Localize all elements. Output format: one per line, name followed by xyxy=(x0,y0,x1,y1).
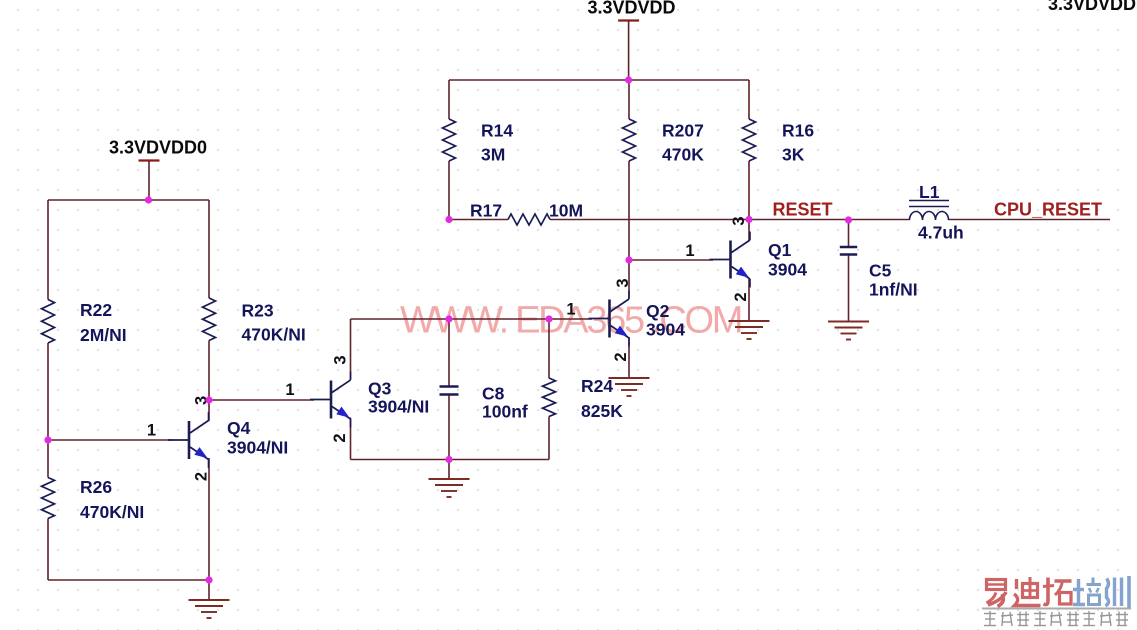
junction reset rail / C5 xyxy=(845,216,852,223)
svg-text:R207: R207 xyxy=(662,121,704,141)
svg-text:3K: 3K xyxy=(782,145,805,165)
svg-text:3904/NI: 3904/NI xyxy=(368,397,429,417)
wire Q3 collector riser xyxy=(350,319,352,379)
logo text 易迪拓 (red CJK glyph approximations) xyxy=(986,577,1072,607)
svg-text:10M: 10M xyxy=(549,201,583,221)
transistor Q2 (NPN 3904) xyxy=(589,291,630,347)
svg-text:C5: C5 xyxy=(869,261,892,281)
wire Q2 emitter drop xyxy=(628,337,630,378)
wire R207 leg upper xyxy=(628,80,630,119)
wire Q4 collector riser xyxy=(208,400,210,421)
svg-text:Q1: Q1 xyxy=(768,240,792,260)
svg-text:RESET: RESET xyxy=(773,200,833,220)
wire R23 leg lower xyxy=(208,341,210,401)
wire R23 leg upper xyxy=(208,200,210,298)
logo text 培训 (blue CJK glyph approximations) xyxy=(1073,576,1129,608)
ground under bottom-left rail xyxy=(189,600,230,618)
wire Q4 base rail xyxy=(48,439,172,441)
wire Q3 base rail xyxy=(209,399,314,401)
svg-text:2: 2 xyxy=(331,433,349,442)
wire top-left rail xyxy=(48,199,209,201)
junction Q2 collector / Q1 base xyxy=(625,256,632,263)
junction R23 leg / Q4 collector / Q3 base xyxy=(205,396,212,403)
svg-text:R22: R22 xyxy=(80,300,112,320)
svg-text:3904/NI: 3904/NI xyxy=(227,438,288,458)
wire bottom-left rail xyxy=(48,579,209,581)
ground under C8 xyxy=(429,479,470,497)
wire reset rail middle xyxy=(550,219,910,221)
svg-text:3M: 3M xyxy=(481,145,505,165)
wire R24 bottom stub xyxy=(548,417,550,460)
junction R24 top / rail xyxy=(545,315,552,322)
power symbol P2 stem wire xyxy=(628,21,630,81)
wire Q1 collector riser xyxy=(748,220,750,242)
svg-text:3.3VDVDD: 3.3VDVDD xyxy=(1048,0,1136,14)
wire gnd stub bottom-left xyxy=(208,580,210,600)
resistor R17 body (horizontal) xyxy=(508,214,550,225)
capacitor C5 plates xyxy=(840,247,857,255)
svg-text:3: 3 xyxy=(614,278,632,287)
svg-text:R23: R23 xyxy=(242,301,274,321)
wire Q3 emitter drop xyxy=(350,418,352,460)
junction bottom-left rail / Q4 emitter xyxy=(205,576,212,583)
power symbol P2 bar xyxy=(618,19,639,21)
wire reset rail left xyxy=(449,219,508,221)
ground under Q1 xyxy=(729,321,770,339)
svg-text:470K: 470K xyxy=(662,145,704,165)
wire C8 bottom rail xyxy=(351,459,550,461)
svg-text:R14: R14 xyxy=(481,121,513,141)
wire Q2 collector riser xyxy=(628,260,630,298)
svg-text:L1: L1 xyxy=(919,182,940,202)
svg-text:R26: R26 xyxy=(80,477,112,497)
wire Q4 emitter drop xyxy=(208,458,210,580)
wire Q1 base rail xyxy=(629,259,713,261)
svg-text:3: 3 xyxy=(730,216,748,225)
logo slogan 射频和天线设计专家 (gray glyph approximations) xyxy=(984,611,1128,626)
transistor Q3 (NPN 3904) xyxy=(310,372,351,428)
svg-text:470K/NI: 470K/NI xyxy=(242,325,306,345)
wire gnd stub C8 xyxy=(448,460,450,480)
wire R14 leg lower xyxy=(448,161,450,220)
resistor R207 body xyxy=(623,119,636,161)
svg-text:2: 2 xyxy=(192,472,210,481)
wire reset rail right of L1 xyxy=(949,219,1111,221)
svg-text:100nf: 100nf xyxy=(482,402,528,422)
wire R207 leg lower (crosses reset rail) xyxy=(628,161,630,260)
junction left rail / Q4 base xyxy=(44,436,51,443)
svg-text:3.3VDVDD: 3.3VDVDD xyxy=(588,0,676,18)
svg-text:CPU_RESET: CPU_RESET xyxy=(994,200,1102,220)
svg-text:470K/NI: 470K/NI xyxy=(80,502,144,522)
resistor R16 body xyxy=(743,119,756,161)
wire R24 top stub xyxy=(548,319,550,378)
capacitor C8 plates xyxy=(440,387,459,395)
junction power P1 / top-left rail xyxy=(145,196,152,203)
inductor L1 symbol xyxy=(909,201,949,221)
logo underline xyxy=(982,608,1131,610)
wire R14 leg upper xyxy=(448,80,450,119)
wire Q1 emitter drop xyxy=(748,278,750,321)
wire R16 leg lower xyxy=(748,161,750,220)
svg-text:4.7uh: 4.7uh xyxy=(918,223,964,243)
svg-text:825K: 825K xyxy=(581,401,623,421)
wire C8 bottom stub xyxy=(448,396,450,460)
svg-text:2: 2 xyxy=(612,352,630,361)
transistor Q1 (NPN 3904) xyxy=(710,232,751,288)
power symbol P1 bar xyxy=(139,159,160,161)
resistor R23 body xyxy=(203,298,216,341)
wire left rail upper xyxy=(47,200,49,300)
wire C5 bottom stub xyxy=(848,256,850,322)
svg-text:1: 1 xyxy=(285,381,294,399)
resistor R26 body xyxy=(42,478,55,519)
svg-text:R16: R16 xyxy=(782,121,814,141)
wire left rail bottom xyxy=(47,519,49,581)
power symbol P1 stem wire xyxy=(148,161,150,201)
resistor R14 body xyxy=(443,119,456,161)
svg-text:Q2: Q2 xyxy=(646,301,670,321)
svg-text:3904: 3904 xyxy=(646,320,685,340)
wire R16 leg upper xyxy=(748,80,750,119)
junction R16 leg / Q1 collector xyxy=(745,216,752,223)
svg-text:Q4: Q4 xyxy=(227,418,251,438)
resistor R24 body xyxy=(543,378,556,417)
junction power P2 / top rail xyxy=(625,76,632,83)
wire left rail mid xyxy=(47,343,49,440)
wire C8 top rail xyxy=(351,318,593,320)
svg-text:2: 2 xyxy=(732,292,750,301)
svg-text:R24: R24 xyxy=(581,376,613,396)
svg-text:3.3VDVDD0: 3.3VDVDD0 xyxy=(109,138,207,158)
wire top rail xyxy=(449,79,749,81)
svg-text:3: 3 xyxy=(332,355,350,364)
svg-text:3904: 3904 xyxy=(768,260,807,280)
ground under C5 xyxy=(828,322,869,340)
svg-text:2M/NI: 2M/NI xyxy=(80,325,127,345)
svg-text:1: 1 xyxy=(685,242,694,260)
junction C8 bottom rail / ground xyxy=(445,456,452,463)
svg-text:Q3: Q3 xyxy=(368,379,392,399)
junction C8 top / rail xyxy=(445,315,452,322)
transistor Q4 (NPN 3904) xyxy=(168,412,209,468)
ground under Q2 xyxy=(609,378,650,396)
svg-text:1: 1 xyxy=(566,301,575,319)
wire left rail lower xyxy=(47,440,49,478)
svg-text:R17: R17 xyxy=(470,201,502,221)
svg-text:1nf/NI: 1nf/NI xyxy=(869,280,918,300)
wire C5 top stub xyxy=(848,220,850,246)
svg-text:1: 1 xyxy=(147,422,156,440)
junction R14 leg / reset rail xyxy=(445,216,452,223)
resistor R22 body xyxy=(42,300,55,344)
svg-text:C8: C8 xyxy=(482,384,505,404)
wire C8 top stub xyxy=(448,319,450,387)
